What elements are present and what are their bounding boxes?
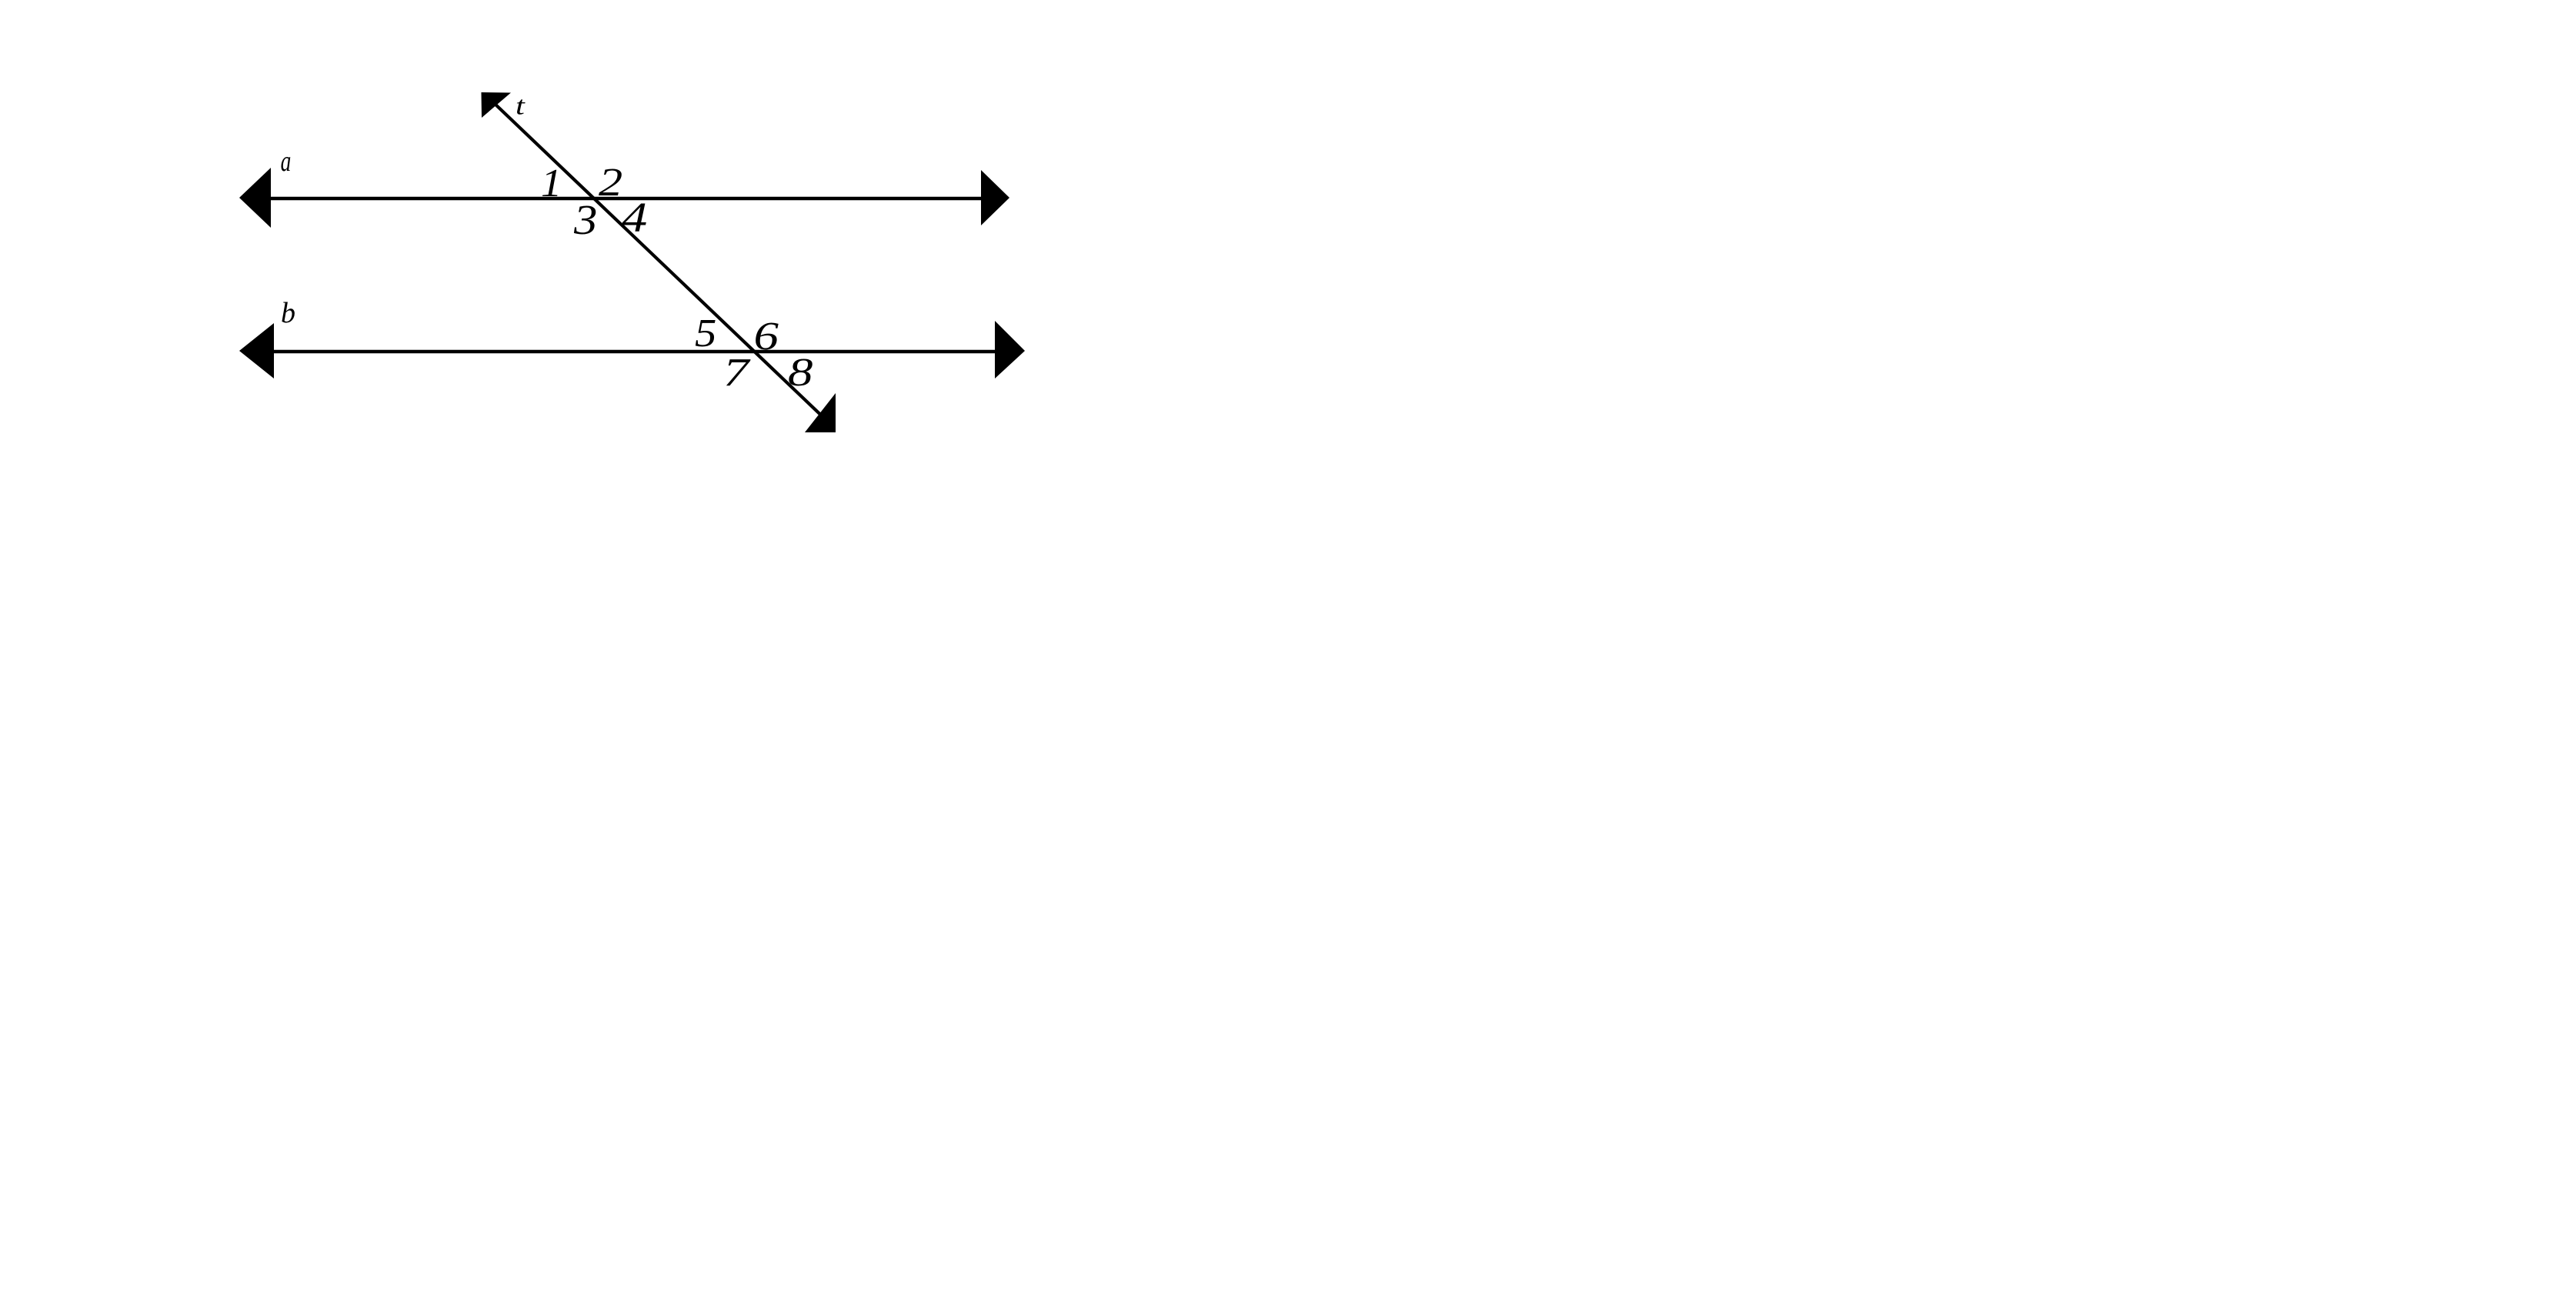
svg-text:6: 6	[754, 314, 779, 358]
arrowhead top of transversal t	[482, 92, 512, 118]
svg-text:4: 4	[622, 195, 647, 241]
line b (bottom horizontal line)	[262, 350, 1000, 354]
arrowhead right of line a	[981, 170, 1009, 225]
arrowhead left of line b	[239, 323, 274, 379]
svg-text:3: 3	[573, 196, 597, 244]
svg-text:t: t	[516, 92, 526, 120]
arrowhead left of line a	[239, 168, 271, 228]
svg-text:a: a	[281, 145, 292, 178]
transversal t	[495, 104, 825, 419]
svg-text:5: 5	[695, 311, 716, 355]
arrowhead right of line b	[995, 321, 1025, 379]
svg-text:7: 7	[723, 350, 751, 394]
svg-text:2: 2	[599, 161, 622, 205]
svg-text:8: 8	[788, 350, 813, 394]
svg-text:1: 1	[541, 160, 562, 205]
arrowhead bottom of transversal t	[805, 393, 836, 432]
svg-text:b: b	[281, 297, 295, 329]
line a (top horizontal line)	[258, 197, 988, 200]
